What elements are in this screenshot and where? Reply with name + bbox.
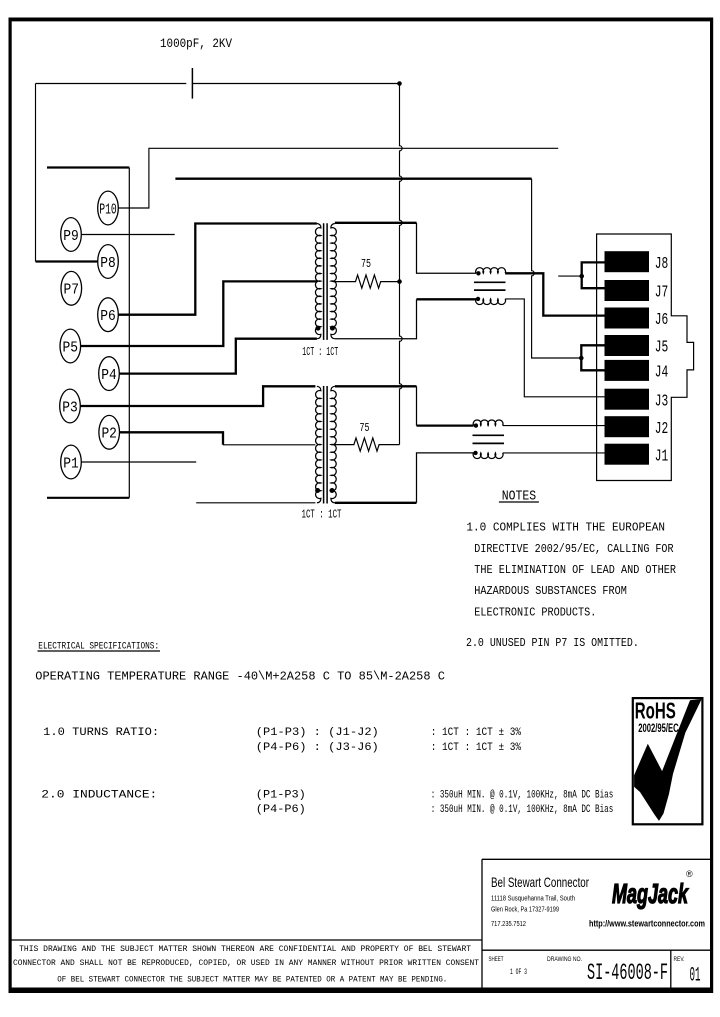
- svg-text:P8: P8: [100, 255, 116, 272]
- wire P6 to T1 primary top: [118, 224, 317, 315]
- wire cap left lead: [36, 83, 187, 85]
- svg-text:75: 75: [361, 257, 371, 271]
- svg-text:: 1CT : 1CT ± 3%: : 1CT : 1CT ± 3%: [431, 742, 522, 754]
- svg-text:ELECTRONIC PRODUCTS.: ELECTRONIC PRODUCTS.: [474, 605, 596, 619]
- jack pad J4: [605, 360, 669, 383]
- disclaimer text: [13, 945, 479, 985]
- svg-text:1000pF, 2KV: 1000pF, 2KV: [160, 36, 232, 51]
- transformer T1 primary winding: [315, 224, 320, 339]
- title block sheet row line: [482, 949, 711, 951]
- pin P4: [99, 357, 120, 391]
- svg-text:1 OF 3: 1 OF 3: [510, 968, 527, 977]
- svg-text:J8: J8: [655, 255, 669, 274]
- svg-text:THIS DRAWING AND THE SUBJECT M: THIS DRAWING AND THE SUBJECT MATTER SHOW…: [19, 945, 471, 954]
- pin P10: [98, 191, 119, 225]
- jack J connector outline: [597, 234, 694, 481]
- svg-text:HAZARDOUS SUBSTANCES FROM: HAZARDOUS SUBSTANCES FROM: [474, 584, 627, 598]
- disclaimer box top line: [10, 939, 482, 941]
- jack pad J7: [605, 280, 669, 303]
- choke L1 core: [474, 282, 506, 290]
- connector body outline (plug side): [47, 168, 129, 498]
- svg-text:P3: P3: [62, 399, 78, 416]
- junction J8/J7 node: [579, 274, 584, 279]
- title block rev divider: [670, 950, 672, 988]
- note 1 text: [466, 521, 676, 620]
- svg-text:: 350uH MIN. @ 0.1V, 100KHz, 8: : 350uH MIN. @ 0.1V, 100KHz, 8mA DC Bias: [431, 804, 614, 816]
- capacitor C1 plate: [191, 68, 193, 99]
- label inductance spec: [41, 790, 613, 817]
- choke L1 top coil: [476, 268, 506, 274]
- svg-text:J7: J7: [655, 284, 669, 303]
- jack pad J2: [605, 416, 669, 439]
- svg-text:SI-46008-F: SI-46008-F: [587, 960, 668, 986]
- wire P1 net to T2 primary bottom: [196, 502, 315, 504]
- svg-text:J5: J5: [655, 339, 669, 358]
- jack pad J3: [605, 389, 669, 412]
- svg-text:J1: J1: [655, 447, 669, 466]
- polarity dot T1 secondary: [330, 326, 335, 331]
- wire choke L1 top to J6: [505, 273, 604, 315]
- svg-text:1CT : 1CT: 1CT : 1CT: [302, 345, 338, 359]
- wire choke L2 bottom to J1: [503, 452, 605, 454]
- svg-text:J2: J2: [655, 420, 669, 439]
- wire T2 secondary bottom to choke L2: [335, 502, 417, 504]
- svg-text:(P1-P3): (P1-P3): [256, 790, 306, 802]
- polarity dot T2 secondary: [330, 488, 335, 493]
- wire choke L2 top to J2: [503, 425, 605, 427]
- svg-text:J4: J4: [655, 364, 669, 383]
- svg-text:P2: P2: [101, 426, 117, 443]
- svg-text:P6: P6: [100, 308, 116, 325]
- RoHS logo box: [633, 698, 703, 824]
- title block divider vertical: [481, 859, 483, 988]
- svg-text:SHEET: SHEET: [489, 956, 504, 963]
- transformer T2 secondary winding: [331, 386, 336, 502]
- svg-text:P9: P9: [63, 228, 79, 245]
- choke L2 top coil: [473, 420, 503, 426]
- wire P10 to top rail: [118, 148, 558, 208]
- jack pad J5: [605, 335, 669, 358]
- jack pad J8: [605, 251, 669, 274]
- svg-text:DRAWING NO.: DRAWING NO.: [547, 956, 582, 963]
- svg-text:2.0 UNUSED PIN P7 IS OMITTED.: 2.0 UNUSED PIN P7 IS OMITTED.: [466, 636, 639, 650]
- svg-text:11118 Susquehanna Trail, South: 11118 Susquehanna Trail, South: [491, 894, 575, 903]
- wire P8 feed: [36, 260, 98, 262]
- label NOTES heading: [499, 489, 539, 505]
- svg-text:THE ELIMINATION OF LEAD AND OT: THE ELIMINATION OF LEAD AND OTHER: [474, 563, 676, 577]
- MagJack logo: [612, 869, 693, 909]
- pin P2: [99, 415, 120, 449]
- svg-text:75: 75: [360, 421, 370, 435]
- svg-text:Glen Rock, Pa 17327-9199: Glen Rock, Pa 17327-9199: [491, 905, 559, 914]
- wire bracket J8-J7: [582, 262, 605, 288]
- wire P5 to T1 primary center tap: [81, 281, 317, 346]
- RoHS checkmark: [634, 699, 702, 821]
- label electrical specifications heading: [38, 642, 161, 653]
- svg-text:®: ®: [686, 869, 693, 879]
- wire T1 secondary top to choke L1: [335, 222, 417, 224]
- pin P7: [61, 271, 82, 305]
- svg-text:(P4-P6): (P4-P6): [256, 804, 306, 816]
- svg-text:01: 01: [690, 965, 701, 988]
- choke L1 bottom coil: [476, 299, 506, 305]
- border frame: [9, 18, 714, 22]
- svg-text:P1: P1: [63, 455, 79, 472]
- choke L2 bottom coil: [473, 453, 503, 459]
- svg-text:http://www.stewartconnector.co: http://www.stewartconnector.com: [589, 919, 705, 930]
- resistor R1 75 ohm: [333, 275, 400, 288]
- resistor R2 75 ohm: [333, 438, 400, 451]
- svg-text:P10: P10: [99, 201, 117, 218]
- svg-text:REV.: REV.: [674, 956, 685, 963]
- svg-text:P4: P4: [101, 367, 117, 384]
- transformer T1 secondary winding: [331, 224, 336, 339]
- wire bracket J5-J4: [581, 345, 604, 370]
- svg-text:1.0 TURNS RATIO:: 1.0 TURNS RATIO:: [43, 727, 159, 739]
- svg-text:: 350uH MIN. @ 0.1V, 100KHz, 8: : 350uH MIN. @ 0.1V, 100KHz, 8mA DC Bias: [431, 790, 614, 802]
- svg-text:CONNECTOR AND SHALL NOT BE REP: CONNECTOR AND SHALL NOT BE REPRODUCED, C…: [13, 959, 479, 968]
- wire choke L1 bottom to J3: [505, 299, 604, 397]
- svg-text:1.0 COMPLIES WITH THE EUROPEAN: 1.0 COMPLIES WITH THE EUROPEAN: [466, 521, 665, 535]
- svg-text:MagJack: MagJack: [612, 878, 689, 909]
- junction R1 to cap bus: [397, 279, 402, 284]
- pin P9: [61, 218, 82, 252]
- svg-text:P5: P5: [63, 339, 79, 356]
- wire P9 rail to J5/J4 tap: [175, 178, 531, 180]
- pin P1: [61, 445, 82, 479]
- svg-text:: 1CT : 1CT ± 3%: : 1CT : 1CT ± 3%: [431, 727, 522, 739]
- pin P6: [98, 298, 119, 332]
- wire T1 secondary bottom to choke L1: [335, 299, 417, 338]
- svg-text:RoHS: RoHS: [635, 698, 676, 724]
- pin P8: [98, 245, 119, 279]
- label turns ratio spec: [43, 727, 521, 754]
- svg-text:J3: J3: [655, 392, 669, 411]
- pin P5: [60, 329, 81, 363]
- wire cap vertical bus with hops: [400, 84, 403, 445]
- title block top line: [482, 858, 711, 860]
- junction cap top node: [397, 81, 402, 86]
- jack pad J1: [605, 444, 669, 467]
- wire P4 to T1 primary bottom: [120, 339, 317, 374]
- svg-text:2.0 INDUCTANCE:: 2.0 INDUCTANCE:: [41, 790, 157, 802]
- svg-text:OF BEL STEWART CONNECTOR THE: OF BEL STEWART CONNECTOR THE SUBJECT MAT…: [57, 976, 447, 985]
- svg-text:J6: J6: [655, 311, 669, 330]
- svg-text:(P1-P3) : (J1-J2): (P1-P3) : (J1-J2): [256, 727, 379, 739]
- wire cap to P8 drop: [35, 84, 37, 262]
- transformer T1 core: [324, 223, 328, 340]
- wire P2 to T2 primary center tap: [120, 432, 223, 445]
- svg-text:1CT : 1CT: 1CT : 1CT: [302, 508, 342, 522]
- wire T2 secondary top to choke L2: [335, 385, 417, 387]
- svg-text:OPERATING TEMPERATURE RANGE -4: OPERATING TEMPERATURE RANGE -40\M+2A258 …: [35, 670, 445, 684]
- svg-text:(P4-P6) : (J3-J6): (P4-P6) : (J3-J6): [256, 742, 379, 754]
- jack pad J6: [605, 308, 669, 331]
- polarity dot T2 primary: [315, 488, 320, 493]
- svg-text:2002/95/EC: 2002/95/EC: [638, 723, 679, 735]
- junction J5/J4 node: [579, 356, 584, 361]
- wire cap right lead to node: [192, 83, 399, 85]
- wire stub at J8/J7 node: [558, 275, 582, 277]
- svg-text:Bel Stewart Connector: Bel Stewart Connector: [491, 874, 589, 890]
- svg-text:DIRECTIVE 2002/95/EC, CALLING: DIRECTIVE 2002/95/EC, CALLING FOR: [474, 542, 673, 556]
- transformer T2 core: [324, 386, 328, 504]
- polarity dot T1 primary: [316, 326, 321, 331]
- wire P3 to T2 primary top: [80, 386, 315, 406]
- wire P1 stub: [82, 461, 197, 463]
- pin P3: [60, 389, 81, 423]
- choke L2 core: [473, 435, 505, 443]
- transformer T2 primary winding: [316, 386, 321, 502]
- svg-text:P7: P7: [64, 282, 80, 299]
- svg-text:717.235.7512: 717.235.7512: [491, 919, 526, 928]
- wire P9 stub: [81, 234, 174, 236]
